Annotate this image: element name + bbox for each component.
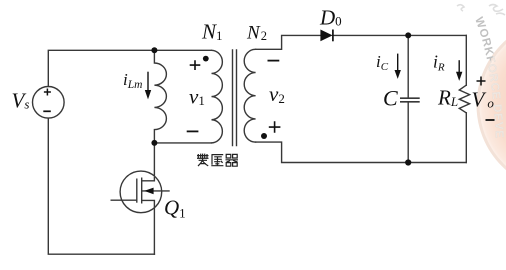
watermark corner squiggles: [457, 5, 505, 16]
wire mosfet source to bottom rail: [153, 200, 155, 254]
polarity minus Vo: [486, 119, 495, 121]
gate plate: [136, 179, 138, 203]
source Vs circle: [33, 87, 65, 119]
char 變: [197, 154, 209, 166]
phase dot secondary: [261, 133, 267, 139]
wire capacitor branch bottom: [407, 102, 409, 163]
gate lead: [111, 199, 137, 201]
wire right side top: [465, 35, 467, 85]
wire secondary bottom rail: [256, 142, 467, 162]
polarity plus secondary bottom: [269, 121, 281, 132]
channel bar: [141, 178, 143, 204]
svg-text:C: C: [383, 85, 398, 110]
wire top-left rail: [48, 50, 211, 86]
wire primary bottom: [154, 142, 211, 144]
wire diode to top-right corner: [333, 34, 466, 36]
transformer core: [233, 50, 237, 146]
transformer primary winding N1: [212, 50, 223, 143]
transformer secondary winding N2: [244, 49, 255, 142]
wire right side bottom: [465, 113, 467, 163]
junction node dots: [151, 47, 157, 53]
drain jog inside circle: [142, 177, 155, 181]
polarity plus Vo: [477, 77, 486, 86]
circuit strokes: [48, 35, 469, 254]
wire left side and bottom rail: [48, 118, 154, 254]
mosfet arrow head: [144, 188, 153, 195]
capacitor C plates: [401, 98, 419, 102]
wire secondary top to diode: [256, 35, 321, 49]
watermark stamp (peach disk, ring, arc text): [457, 5, 506, 191]
wire capacitor branch top: [407, 35, 409, 98]
watermark ring text white part over disk: [472, 16, 505, 139]
resistor RL zigzag: [459, 85, 469, 113]
polarity plus primary top: [190, 60, 201, 70]
body arrow line: [142, 190, 170, 192]
label transformer (Chinese 變壓器) drawn glyphs: [197, 154, 238, 167]
phase dot primary: [203, 56, 209, 62]
watermark peach disk: [478, 20, 506, 190]
char 器: [226, 154, 239, 166]
inductor Lm (magnetizing): [154, 50, 166, 143]
source jog: [142, 200, 155, 207]
polarity minus secondary top: [268, 60, 280, 62]
wire mosfet drain: [142, 143, 155, 181]
current arrow iC: [395, 54, 401, 79]
char 壓: [211, 155, 223, 166]
source Vs plus: [44, 89, 51, 96]
source Vs minus: [43, 110, 51, 112]
diode D0: [320, 30, 333, 42]
transistor Q1 (MOSFET): [111, 171, 170, 213]
current arrow iR: [456, 60, 462, 81]
polarity minus primary bottom: [187, 130, 199, 132]
current arrow iLm: [145, 72, 151, 100]
